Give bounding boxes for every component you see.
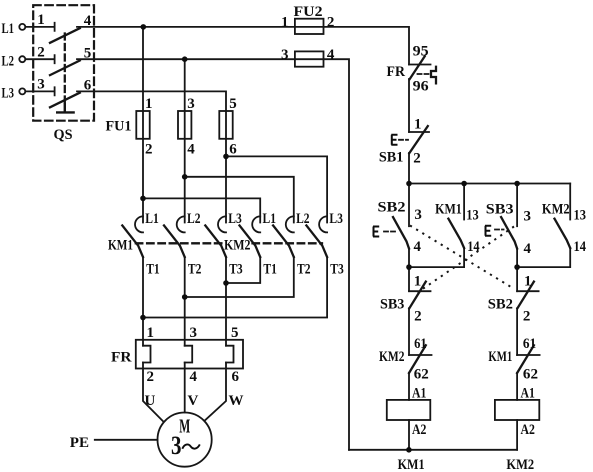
svg-text:62: 62	[414, 367, 429, 383]
svg-text:61: 61	[523, 336, 536, 352]
svg-text:L3: L3	[228, 211, 242, 227]
svg-text:FU2: FU2	[294, 4, 323, 20]
svg-text:KM1: KM1	[488, 349, 512, 365]
svg-text:1: 1	[37, 12, 45, 28]
svg-text:QS: QS	[54, 127, 73, 143]
svg-text:A2: A2	[521, 422, 535, 438]
svg-text:SB1: SB1	[379, 150, 404, 166]
svg-text:FR: FR	[387, 64, 406, 80]
svg-text:2: 2	[147, 369, 155, 385]
svg-text:KM1: KM1	[435, 201, 462, 217]
svg-text:6: 6	[232, 369, 240, 385]
svg-text:SB2: SB2	[378, 200, 406, 216]
svg-text:4: 4	[524, 241, 532, 257]
svg-text:4: 4	[187, 141, 195, 157]
svg-text:T3: T3	[229, 262, 243, 278]
svg-text:T2: T2	[297, 262, 311, 278]
svg-text:KM2: KM2	[506, 457, 534, 472]
svg-text:3: 3	[187, 96, 195, 112]
svg-text:3: 3	[281, 47, 289, 63]
svg-text:SB3: SB3	[486, 201, 514, 217]
svg-text:3: 3	[37, 77, 45, 93]
svg-text:L2: L2	[187, 211, 201, 227]
svg-text:A1: A1	[412, 386, 426, 402]
svg-text:3: 3	[524, 209, 532, 225]
svg-text:1: 1	[281, 15, 289, 31]
svg-text:1: 1	[145, 96, 153, 112]
svg-text:SB3: SB3	[380, 297, 404, 313]
svg-text:61: 61	[414, 336, 427, 352]
svg-text:4: 4	[190, 369, 198, 385]
svg-text:T1: T1	[146, 262, 160, 278]
svg-text:T2: T2	[188, 262, 202, 278]
svg-text:FU1: FU1	[106, 119, 132, 135]
svg-text:3: 3	[171, 431, 182, 460]
svg-text:1: 1	[414, 116, 422, 132]
svg-text:4: 4	[84, 13, 92, 29]
svg-text:A1: A1	[521, 386, 535, 402]
svg-text:2: 2	[37, 45, 45, 61]
svg-text:W: W	[229, 393, 244, 409]
svg-text:T1: T1	[263, 262, 277, 278]
svg-text:2: 2	[523, 308, 531, 324]
svg-text:14: 14	[574, 239, 587, 255]
svg-text:2: 2	[327, 15, 335, 31]
svg-text:3: 3	[190, 325, 198, 341]
svg-text:4: 4	[414, 239, 422, 255]
svg-text:L2: L2	[296, 211, 310, 227]
svg-text:96: 96	[413, 78, 430, 94]
svg-text:FR: FR	[111, 350, 132, 366]
svg-text:2: 2	[413, 151, 421, 167]
svg-text:5: 5	[84, 46, 92, 62]
svg-text:5: 5	[229, 96, 237, 112]
svg-text:L3: L3	[2, 86, 15, 102]
svg-text:6: 6	[229, 141, 237, 157]
svg-text:U: U	[145, 393, 156, 409]
svg-text:1: 1	[414, 273, 422, 289]
svg-text:SB2: SB2	[488, 297, 513, 313]
svg-text:KM1: KM1	[108, 238, 133, 254]
svg-text:1: 1	[147, 325, 155, 341]
svg-text:L1: L1	[145, 211, 159, 227]
svg-text:V: V	[188, 393, 199, 409]
svg-text:PE: PE	[70, 435, 89, 451]
svg-text:14: 14	[467, 239, 480, 255]
svg-text:KM2: KM2	[224, 237, 251, 253]
svg-text:5: 5	[231, 325, 239, 341]
svg-text:T3: T3	[330, 262, 344, 278]
svg-text:L1: L1	[2, 21, 15, 37]
svg-text:2: 2	[145, 141, 153, 157]
svg-text:13: 13	[466, 208, 478, 224]
svg-text:KM2: KM2	[542, 201, 570, 217]
svg-text:1: 1	[524, 273, 532, 289]
svg-text:95: 95	[413, 43, 429, 59]
svg-text:L3: L3	[329, 211, 343, 227]
svg-text:62: 62	[523, 367, 538, 383]
svg-text:A2: A2	[412, 422, 426, 438]
svg-text:2: 2	[414, 308, 422, 324]
svg-text:L2: L2	[2, 54, 15, 70]
svg-text:KM2: KM2	[379, 349, 405, 365]
svg-text:L1: L1	[263, 211, 277, 227]
svg-text:KM1: KM1	[398, 457, 425, 472]
svg-text:13: 13	[574, 208, 587, 224]
svg-text:3: 3	[414, 207, 422, 223]
svg-text:4: 4	[327, 47, 335, 63]
svg-text:6: 6	[84, 78, 92, 94]
